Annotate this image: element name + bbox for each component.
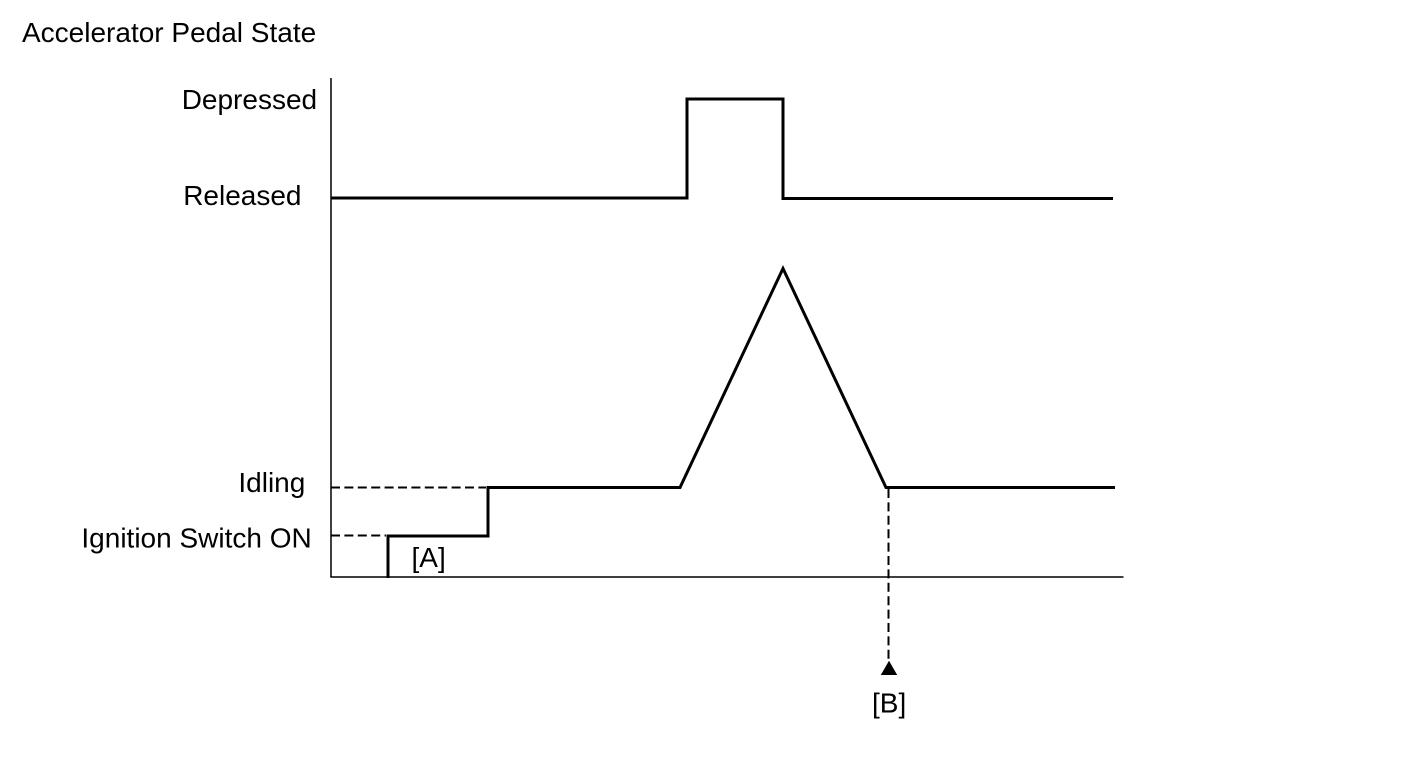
dashed ignition switch ON reference line	[331, 535, 386, 537]
engine state trace (ignition step, idling, rev peak)	[388, 269, 1115, 579]
arrowhead at B (pointing up)	[881, 661, 897, 675]
svg-text:[A]: [A]	[412, 542, 446, 573]
dashed vertical marker line at B	[888, 489, 890, 659]
accelerator pedal trace (released/depressed pulse)	[331, 99, 1113, 199]
x-axis	[330, 576, 1123, 578]
svg-text:Released: Released	[183, 180, 301, 211]
svg-text:Accelerator Pedal State: Accelerator Pedal State	[22, 17, 316, 48]
svg-text:Ignition Switch ON: Ignition Switch ON	[81, 523, 311, 554]
dashed idling reference line	[331, 487, 486, 489]
svg-text:[B]: [B]	[872, 688, 906, 719]
y-axis	[330, 78, 332, 577]
svg-text:Idling: Idling	[238, 467, 305, 498]
svg-text:Depressed: Depressed	[182, 84, 317, 115]
